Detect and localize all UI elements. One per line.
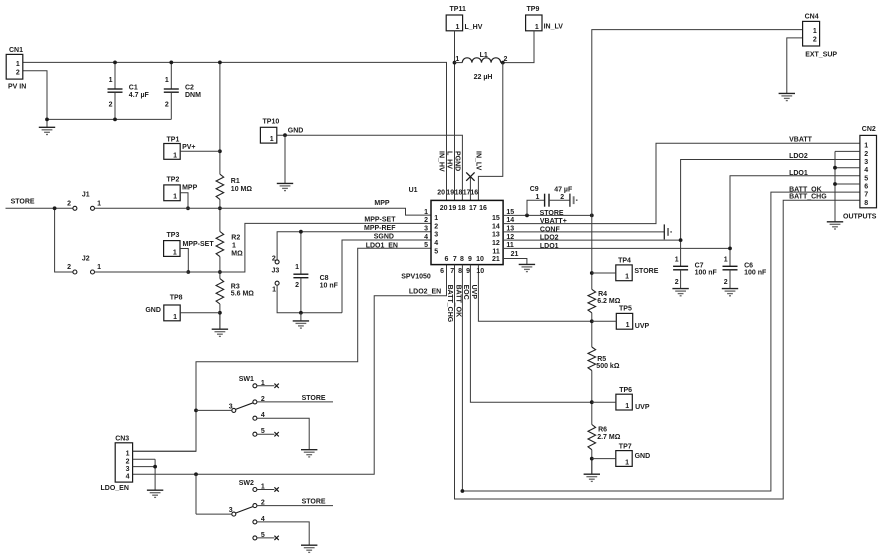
svg-text:1: 1 (625, 274, 629, 281)
svg-text:1: 1 (625, 459, 629, 466)
svg-text:8: 8 (864, 200, 868, 207)
svg-text:8: 8 (458, 268, 462, 275)
svg-text:OUTPUTS: OUTPUTS (843, 214, 877, 221)
svg-text:21: 21 (492, 256, 500, 263)
svg-text:PV IN: PV IN (8, 84, 26, 91)
svg-text:6: 6 (444, 256, 448, 263)
svg-text:47 µF: 47 µF (554, 187, 573, 194)
svg-text:1: 1 (626, 322, 630, 329)
svg-text:MPP: MPP (374, 200, 390, 207)
svg-text:3: 3 (229, 507, 233, 514)
svg-text:2: 2 (724, 279, 728, 286)
svg-text:MΩ: MΩ (231, 251, 243, 258)
svg-text:6.2 MΩ: 6.2 MΩ (597, 298, 621, 305)
svg-text:EXT_SUP: EXT_SUP (805, 52, 837, 59)
svg-text:10: 10 (476, 268, 484, 275)
svg-text:R4: R4 (598, 291, 607, 298)
svg-text:C8: C8 (320, 275, 329, 282)
svg-text:1: 1 (261, 484, 265, 491)
svg-text:SGND: SGND (374, 233, 394, 240)
svg-text:2: 2 (813, 37, 817, 44)
svg-text:2: 2 (165, 101, 169, 108)
svg-text:LDO1_EN: LDO1_EN (366, 243, 398, 250)
svg-text:2: 2 (272, 255, 276, 262)
svg-text:STORE: STORE (634, 268, 658, 275)
svg-text:1: 1 (455, 24, 459, 31)
svg-text:TP3: TP3 (167, 232, 180, 239)
svg-text:STORE: STORE (11, 199, 35, 206)
svg-text:9: 9 (468, 256, 472, 263)
svg-text:1: 1 (455, 56, 459, 63)
svg-text:20: 20 (437, 190, 445, 197)
svg-text:R6: R6 (598, 427, 607, 434)
svg-text:PGND: PGND (454, 151, 461, 171)
svg-text:GND: GND (145, 307, 161, 314)
svg-text:1: 1 (625, 403, 629, 410)
svg-text:1: 1 (165, 77, 169, 84)
svg-text:1: 1 (97, 264, 101, 271)
svg-text:4: 4 (864, 167, 868, 174)
svg-text:TP10: TP10 (263, 119, 280, 126)
svg-text:5: 5 (424, 242, 428, 249)
svg-text:8: 8 (460, 256, 464, 263)
svg-text:1: 1 (675, 256, 679, 263)
svg-text:100 nF: 100 nF (744, 269, 767, 276)
svg-text:5: 5 (864, 175, 868, 182)
svg-text:TP9: TP9 (527, 6, 540, 13)
svg-text:5: 5 (261, 428, 265, 435)
svg-text:CN2: CN2 (862, 126, 876, 133)
svg-text:2.7 MΩ: 2.7 MΩ (597, 434, 621, 441)
svg-text:TP11: TP11 (450, 6, 466, 13)
svg-text:1: 1 (261, 380, 265, 387)
svg-text:LDO_EN: LDO_EN (101, 485, 129, 492)
svg-text:LDO1: LDO1 (789, 170, 808, 177)
svg-text:BATT_CHG: BATT_CHG (789, 193, 827, 200)
svg-text:MPP-SET: MPP-SET (364, 217, 396, 224)
svg-text:10: 10 (476, 256, 484, 263)
svg-text:7: 7 (450, 268, 454, 275)
svg-text:9: 9 (466, 268, 470, 275)
svg-text:EOC: EOC (462, 285, 469, 300)
svg-text:4: 4 (261, 516, 265, 523)
svg-text:UVP: UVP (635, 323, 650, 330)
svg-text:R1: R1 (231, 178, 240, 185)
svg-text:DNM: DNM (185, 92, 201, 99)
svg-text:16: 16 (470, 190, 478, 197)
svg-text:4: 4 (261, 412, 265, 419)
svg-text:IN_LV: IN_LV (474, 151, 481, 171)
svg-text:L_HV: L_HV (465, 24, 483, 31)
svg-text:1: 1 (126, 451, 130, 458)
svg-text:C1: C1 (129, 84, 138, 91)
svg-text:R2: R2 (231, 234, 240, 241)
svg-text:1: 1 (16, 61, 20, 68)
svg-text:SW2: SW2 (239, 480, 254, 487)
svg-text:TP2: TP2 (167, 176, 180, 183)
svg-text:SPV1050: SPV1050 (401, 274, 431, 281)
svg-text:11: 11 (506, 242, 514, 249)
svg-text:6: 6 (440, 268, 444, 275)
svg-text:13: 13 (506, 226, 514, 233)
svg-text:5: 5 (261, 532, 265, 539)
svg-text:1: 1 (272, 287, 276, 294)
svg-text:13: 13 (492, 232, 500, 239)
svg-text:1: 1 (173, 249, 177, 256)
svg-text:VBATT+: VBATT+ (540, 218, 567, 225)
svg-text:2: 2 (864, 151, 868, 158)
svg-text:U1: U1 (409, 187, 418, 194)
svg-text:500 kΩ: 500 kΩ (596, 363, 620, 370)
svg-text:14: 14 (506, 217, 514, 224)
svg-text:CN1: CN1 (9, 47, 23, 54)
svg-text:4: 4 (434, 240, 438, 247)
svg-text:TP1: TP1 (167, 136, 180, 143)
svg-text:LDO2_EN: LDO2_EN (409, 289, 441, 296)
svg-text:C9: C9 (530, 186, 539, 193)
svg-text:1: 1 (232, 242, 236, 249)
svg-text:2: 2 (503, 56, 507, 63)
svg-text:BATT_CHG: BATT_CHG (446, 285, 453, 323)
svg-text:22 µH: 22 µH (474, 74, 493, 81)
svg-text:3: 3 (864, 159, 868, 166)
svg-text:STORE: STORE (540, 210, 564, 217)
svg-text:2: 2 (67, 200, 71, 207)
svg-text:1: 1 (109, 77, 113, 84)
svg-text:UVP: UVP (635, 404, 650, 411)
svg-text:2: 2 (560, 194, 564, 201)
svg-text:GND: GND (635, 453, 651, 460)
svg-text:2: 2 (295, 282, 299, 289)
svg-text:L_HV: L_HV (445, 151, 452, 169)
svg-text:LDO1: LDO1 (540, 243, 559, 250)
svg-text:MPP: MPP (182, 185, 198, 192)
svg-text:1: 1 (535, 194, 539, 201)
svg-text:TP4: TP4 (618, 257, 631, 264)
svg-text:STORE: STORE (302, 499, 326, 506)
svg-text:J2: J2 (82, 255, 90, 262)
svg-text:MPP-REF: MPP-REF (364, 225, 396, 232)
svg-text:12: 12 (506, 234, 514, 241)
svg-text:R5: R5 (597, 356, 606, 363)
svg-text:IN_LV: IN_LV (544, 24, 564, 31)
svg-text:1: 1 (424, 209, 428, 216)
svg-text:20: 20 (440, 205, 448, 212)
svg-text:R3: R3 (231, 284, 240, 291)
svg-text:2: 2 (126, 459, 130, 466)
svg-text:L1: L1 (480, 52, 488, 59)
svg-text:4.7 µF: 4.7 µF (129, 92, 150, 99)
svg-text:MPP-SET: MPP-SET (183, 241, 215, 248)
svg-text:14: 14 (492, 223, 500, 230)
svg-text:C2: C2 (185, 84, 194, 91)
svg-text:1: 1 (295, 264, 299, 271)
svg-text:11: 11 (492, 248, 500, 255)
svg-text:2: 2 (109, 101, 113, 108)
svg-text:3: 3 (424, 226, 428, 233)
svg-text:18: 18 (458, 205, 466, 212)
svg-text:15: 15 (492, 215, 500, 222)
svg-text:1: 1 (270, 136, 274, 143)
svg-text:PV+: PV+ (182, 144, 195, 151)
svg-text:19: 19 (446, 190, 454, 197)
svg-text:UVP: UVP (470, 285, 477, 300)
svg-text:VBATT: VBATT (789, 136, 813, 143)
svg-text:5.6 MΩ: 5.6 MΩ (231, 291, 255, 298)
svg-text:1: 1 (724, 256, 728, 263)
svg-text:TP6: TP6 (619, 387, 632, 394)
svg-text:21: 21 (511, 251, 519, 258)
svg-text:J1: J1 (82, 192, 90, 199)
svg-text:10 MΩ: 10 MΩ (231, 186, 253, 193)
svg-text:IN_HV: IN_HV (437, 151, 444, 172)
svg-text:BATT_OK: BATT_OK (454, 285, 461, 318)
svg-text:16: 16 (479, 205, 487, 212)
svg-text:3: 3 (434, 232, 438, 239)
svg-text:SW1: SW1 (239, 376, 254, 383)
svg-text:1: 1 (535, 24, 539, 31)
svg-text:2: 2 (67, 264, 71, 271)
svg-text:100 nF: 100 nF (695, 269, 718, 276)
svg-text:GND: GND (288, 128, 304, 135)
svg-text:5: 5 (434, 248, 438, 255)
svg-text:4: 4 (424, 234, 428, 241)
svg-text:LDO2: LDO2 (540, 235, 559, 242)
svg-text:1: 1 (813, 28, 817, 35)
svg-text:2: 2 (424, 217, 428, 224)
svg-text:10 nF: 10 nF (320, 282, 339, 289)
svg-text:12: 12 (492, 240, 500, 247)
svg-text:1: 1 (173, 314, 177, 321)
svg-text:1: 1 (97, 200, 101, 207)
svg-text:TP7: TP7 (619, 444, 632, 451)
svg-text:2: 2 (261, 500, 265, 507)
svg-text:7: 7 (864, 192, 868, 199)
svg-text:17: 17 (469, 205, 477, 212)
svg-text:1: 1 (434, 215, 438, 222)
svg-text:1: 1 (864, 143, 868, 150)
svg-text:2: 2 (675, 279, 679, 286)
svg-text:3: 3 (229, 404, 233, 411)
svg-text:2: 2 (434, 223, 438, 230)
svg-text:CN4: CN4 (805, 13, 819, 20)
svg-text:15: 15 (506, 209, 514, 216)
svg-text:1: 1 (173, 152, 177, 159)
svg-text:2: 2 (261, 396, 265, 403)
svg-text:6: 6 (864, 184, 868, 191)
svg-text:TP8: TP8 (170, 295, 183, 302)
svg-text:4: 4 (126, 474, 130, 481)
svg-text:3: 3 (126, 466, 130, 473)
svg-text:TP5: TP5 (619, 306, 632, 313)
svg-text:CONF: CONF (540, 226, 561, 233)
svg-text:18: 18 (455, 190, 463, 197)
svg-text:LDO2: LDO2 (789, 153, 808, 160)
svg-text:1: 1 (173, 194, 177, 201)
svg-text:7: 7 (453, 256, 457, 263)
svg-text:J3: J3 (272, 268, 280, 275)
svg-text:2: 2 (16, 69, 20, 76)
svg-text:CN3: CN3 (115, 435, 129, 442)
svg-text:19: 19 (449, 205, 457, 212)
svg-text:STORE: STORE (302, 395, 326, 402)
